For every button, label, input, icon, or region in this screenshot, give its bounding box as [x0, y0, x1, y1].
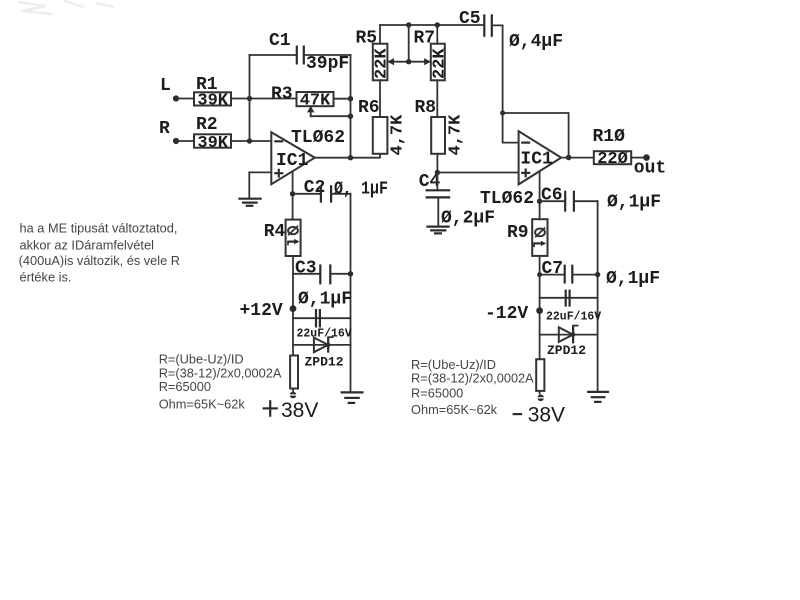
wire C1 right to feedback bus [305, 54, 351, 56]
wire R5 to R6 [379, 80, 381, 117]
resistor R2 39K [194, 115, 231, 153]
resistor R8 4,7K [415, 98, 466, 156]
resistor R5 22K trimmer [356, 28, 392, 80]
svg-text:(400uA)is változik, és vele R: (400uA)is változik, és vele R [19, 253, 180, 268]
node L [160, 76, 171, 96]
svg-text:R6: R6 [358, 98, 380, 118]
svg-text:L: L [160, 76, 171, 96]
zener diode ZPD12 right [540, 326, 598, 358]
svg-text:22K: 22K [430, 48, 449, 79]
capacitor C3 0,1uF [293, 259, 353, 310]
wire R1 to node A / R3 [231, 98, 297, 100]
node A junction [247, 96, 252, 101]
svg-text:R8: R8 [415, 98, 437, 118]
resistor R4 (ME) [264, 220, 301, 256]
wire right vertical bus to ground [597, 201, 599, 391]
wire op-amp1 output to R6 [315, 154, 380, 158]
capacitor C2 0,1uF [290, 178, 388, 203]
svg-text:22uF/16V: 22uF/16V [546, 311, 601, 324]
wire op-amp2 inverting input [503, 113, 519, 143]
resistor right (to -38V) [536, 359, 544, 393]
wire C1 left [250, 54, 297, 56]
input terminal L [173, 95, 179, 101]
wire R3 right [334, 98, 351, 100]
svg-text:C2: C2 [304, 178, 326, 198]
svg-text:Ohm=65K~62k: Ohm=65K~62k [159, 397, 246, 412]
svg-text:ZPD12: ZPD12 [547, 343, 586, 358]
resistor R1 39K [194, 75, 231, 110]
svg-text:TLØ62: TLØ62 [480, 189, 534, 209]
svg-text:R=(38-12)/2x0,0002A: R=(38-12)/2x0,0002A [411, 371, 534, 386]
svg-text:R: R [159, 119, 170, 139]
resistor R9 (ME) [507, 219, 548, 256]
wire R input to R2 [176, 140, 194, 142]
wire C2 right vertical bus [350, 194, 352, 345]
svg-text:ZPD12: ZPD12 [305, 355, 344, 370]
wire op-amp2 output [561, 157, 594, 159]
svg-text:R4: R4 [264, 222, 286, 242]
svg-text:R=65000: R=65000 [159, 379, 211, 394]
wire R9 bottom vertical to -38V branch [539, 256, 541, 359]
svg-text:out: out [634, 159, 666, 179]
svg-text:+12V: +12V [240, 301, 283, 321]
wire op-amp1 non-inverting input [249, 172, 271, 198]
wire feedback loop op-amp2 [500, 111, 571, 161]
svg-text:R7: R7 [414, 28, 436, 48]
resistor R10 220 [593, 127, 632, 169]
op-amp IC1 (second TL062) [480, 131, 561, 209]
resistor R3 47K trimmer [271, 85, 351, 117]
zener diode ZPD12 left [293, 337, 351, 369]
input terminal R [173, 138, 179, 144]
svg-text:39K: 39K [197, 134, 228, 153]
capacitor 22uF/16V left [293, 309, 352, 341]
wire op-amp2 lower pin vertical [539, 172, 541, 220]
resistor left (to +38V) [290, 356, 298, 392]
node out [631, 154, 666, 178]
wire L input to R1 [176, 98, 194, 100]
svg-text:R3: R3 [271, 85, 293, 105]
terminal +38V [263, 392, 319, 422]
junction dot R2/bus [247, 138, 252, 143]
svg-text:Ø,1µF: Ø,1µF [298, 290, 352, 310]
svg-text:R=(38-12)/2x0,0002A: R=(38-12)/2x0,0002A [159, 365, 282, 380]
svg-text:Ohm=65K~62k: Ohm=65K~62k [411, 402, 498, 417]
capacitor C4 0,2uF [419, 172, 495, 229]
svg-text:38V: 38V [528, 404, 565, 427]
wire R7 to R8 [436, 80, 438, 117]
capacitor 22uF/16V right [540, 290, 602, 324]
svg-text:Ø, 1µF: Ø, 1µF [334, 180, 388, 200]
svg-text:22K: 22K [373, 48, 392, 79]
svg-text:Ø,1µF: Ø,1µF [607, 193, 661, 213]
ground right lower [587, 392, 609, 402]
svg-text:Ø,1µF: Ø,1µF [606, 269, 660, 289]
wire C4 node to op-amp2 non-inverting input [437, 172, 518, 174]
node +12V [240, 301, 297, 321]
svg-text:R9: R9 [507, 223, 529, 243]
svg-text:IC1: IC1 [520, 149, 553, 169]
svg-text:akkor az IDáramfelvétel: akkor az IDáramfelvétel [20, 238, 154, 253]
wire feedback bus vertical [348, 55, 353, 160]
svg-text:22Ø: 22Ø [597, 150, 628, 169]
op-amp IC1 (first TL062) [271, 128, 345, 184]
wire input bus vertical [249, 55, 251, 141]
svg-text:R1Ø: R1Ø [593, 127, 626, 147]
note R formula left [159, 352, 282, 412]
wire R4 bottom vertical to +38V branch [292, 256, 294, 356]
svg-text:Ø,4µF: Ø,4µF [509, 32, 563, 52]
svg-text:R2: R2 [196, 115, 218, 135]
svg-text:R5: R5 [356, 28, 378, 48]
node -12V [485, 304, 543, 324]
svg-text:R=(Ube-Uz)/ID: R=(Ube-Uz)/ID [159, 352, 244, 367]
wire R2 to op-amp inverting input [231, 140, 271, 142]
wire R8 bottom to C4 node [435, 154, 440, 175]
capacitor C5 0,4uF [459, 9, 563, 52]
capacitor C7 0,1uF [537, 259, 660, 289]
svg-text:ha a ME tipusát változtatod,: ha a ME tipusát változtatod, [20, 221, 178, 236]
note R formula right [411, 357, 534, 417]
svg-text:TLØ62: TLØ62 [291, 128, 345, 148]
resistor R7 22K trimmer [414, 28, 450, 80]
wire op-amp1 lower pin vertical [292, 171, 294, 219]
capacitor C1 39pF [269, 31, 349, 74]
svg-text:C6: C6 [541, 186, 563, 206]
svg-text:4,7K: 4,7K [389, 114, 408, 156]
ground op-amp1 [238, 199, 261, 206]
svg-text:22uF/16V: 22uF/16V [297, 328, 352, 341]
svg-text:IC1: IC1 [276, 151, 309, 171]
svg-text:C3: C3 [295, 259, 317, 279]
svg-text:C7: C7 [542, 259, 564, 279]
ground left lower [341, 345, 364, 403]
capacitor C6 0,1uF [537, 186, 661, 213]
svg-text:R=65000: R=65000 [411, 386, 463, 401]
svg-text:39pF: 39pF [306, 54, 349, 74]
ground C4 [426, 227, 449, 234]
svg-text:értéke is.: értéke is. [20, 269, 72, 284]
svg-text:38V: 38V [281, 399, 318, 422]
svg-text:4,7K: 4,7K [446, 114, 465, 156]
svg-text:-12V: -12V [485, 304, 528, 324]
svg-text:39K: 39K [197, 91, 228, 110]
resistor R6 4,7K [358, 98, 408, 156]
wire C5 right down [493, 25, 503, 113]
wire wiper link R5-R7 [388, 25, 431, 65]
svg-text:C5: C5 [459, 9, 481, 29]
note hungarian annotation [19, 221, 180, 285]
wire top rail to C5 [380, 22, 484, 43]
svg-text:47K: 47K [300, 92, 331, 111]
svg-text:C1: C1 [269, 31, 291, 51]
node R [159, 119, 170, 139]
terminal -38V [513, 395, 565, 427]
